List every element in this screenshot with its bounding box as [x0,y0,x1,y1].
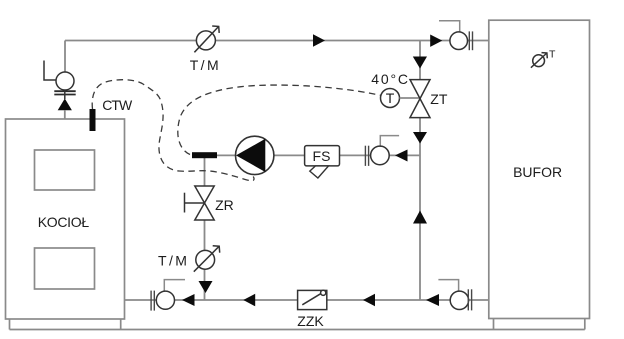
union bottom right [468,289,471,310]
svg-text:ZR: ZR [215,197,234,213]
safety valve lever [44,61,56,81]
FS paddle flag [310,166,329,178]
svg-text:ZZK: ZZK [297,313,324,329]
dashed capillary pipe sensor to ZT thermostat [178,85,381,154]
pump impeller triangle [236,139,265,172]
svg-text:T: T [549,49,556,61]
boiler KOCIOL body [6,119,125,319]
svg-text:KOCIOŁ: KOCIOŁ [38,214,90,230]
flow arrow down to ZT [413,57,427,69]
pipe sensor black bar [192,152,217,158]
svg-text:T: T [386,90,395,106]
flow arrow top pipe right [430,35,442,47]
wire safety valve stem [64,90,66,99]
connector circle bottom right [438,280,468,310]
gauge T/M bottom [194,246,220,272]
svg-text:BUFOR: BUFOR [513,164,562,180]
safety valve body triangle [58,99,72,111]
sensor CTW black bar [90,109,96,131]
flow arrow up on lower branch [413,211,427,224]
flow switch FS box [305,146,340,166]
flow arrow left into middle pipe [395,150,408,162]
wire ZT branch vertical [419,41,421,301]
union top right [469,31,472,50]
check valve ZZK [298,290,327,309]
wire middle pump pipe [204,154,420,156]
flow arrow bottom pipe 4 [426,294,439,306]
buffer tank BUFOR [489,20,590,318]
flow arrow down below ZT [413,132,427,144]
svg-text:T/M: T/M [190,57,221,73]
flow arrow bottom pipe 3 [363,294,375,307]
connector circle bottom left [156,280,185,310]
svg-text:CTW: CTW [102,97,133,113]
pump circle [236,136,274,174]
wire ZR drop line [204,155,206,300]
buffer pedestal [494,319,585,330]
flow arrow down to bottom pipe [199,281,213,293]
boiler pedestal and floor line [10,319,585,330]
flow arrow bottom pipe 1 [182,294,195,306]
valve ZR with handle [195,186,214,220]
wire bottom return pipe [125,299,490,301]
ZR handle [185,193,205,213]
wire safety valve to boiler top [64,110,66,119]
thermostat head T circle [381,89,400,108]
svg-text:T/M: T/M [158,253,189,269]
union bottom left [151,291,154,311]
flow arrow bottom pipe 2 [243,294,255,307]
valve ZT three-way thermostatic [410,80,430,118]
svg-text:ZT: ZT [430,91,448,107]
safety valve head circle [56,72,74,90]
union middle [365,146,368,166]
wire top supply pipe [65,41,489,73]
buffer temperature sensor symbol [531,53,547,68]
safety valve spring lines [54,91,75,94]
svg-text:40°C: 40°C [371,71,409,87]
connector circle middle [371,136,400,165]
gauge T/M top [194,26,219,52]
flow arrow top pipe mid [313,34,325,47]
wire thermostat to valve [400,97,421,99]
dashed capillary CTW to pump [92,80,254,181]
svg-text:FS: FS [313,148,331,164]
connector circle top right [439,21,468,50]
